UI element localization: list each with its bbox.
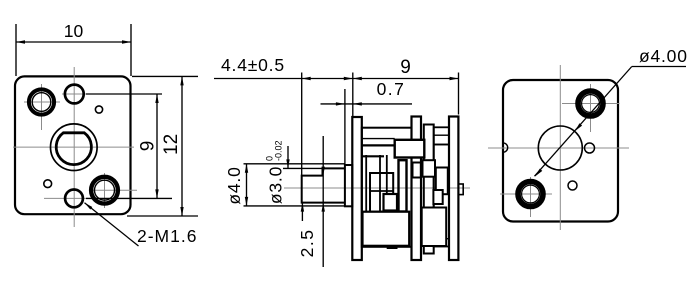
gear internals [362, 138, 395, 140]
small hole bottom [568, 181, 577, 190]
dimension 4.4±0.5 [214, 73, 353, 176]
leader ø4.00 [535, 67, 687, 177]
front plate side [352, 117, 362, 260]
dimension 9 (middle view) [353, 73, 459, 115]
leader 2-M1.6 [85, 203, 139, 246]
svg-text:9: 9 [137, 141, 158, 152]
svg-text:4.4±0.5: 4.4±0.5 [221, 55, 285, 75]
svg-text:ø4.00: ø4.00 [639, 46, 688, 66]
dimension ø3.0 with tolerance [283, 146, 323, 221]
centerlines [488, 65, 629, 230]
middle plate [412, 117, 422, 261]
hole TR ring [578, 91, 603, 116]
gearbox body [362, 128, 412, 247]
svg-text:-0.02: -0.02 [274, 140, 284, 161]
centerline horizontal main [13, 146, 134, 148]
motor body [434, 127, 449, 246]
gear hub on middle plate [413, 163, 421, 178]
svg-text:ø3.0: ø3.0 [266, 166, 286, 204]
plate back outline [503, 80, 618, 222]
svg-text:ø4.0: ø4.0 [224, 166, 244, 204]
small gear below centerline right [433, 190, 442, 204]
svg-text:12: 12 [161, 134, 182, 155]
small dot hole left [44, 180, 52, 188]
centerline BC hole horizontal (left part) [44, 197, 88, 199]
band plate [424, 125, 434, 254]
collar (0.7 boss) [345, 165, 352, 206]
dimension 0.7 [321, 89, 413, 166]
hole BR ring [91, 177, 118, 204]
hole TC (M1.6) [65, 85, 84, 104]
dimension 2.5 [322, 136, 324, 267]
centerline TC hole horizontal (left part) [62, 93, 88, 95]
center D-shaft hole with flat [56, 133, 91, 165]
centerline TL hole horizontal [24, 101, 60, 103]
svg-text:9: 9 [400, 57, 411, 78]
svg-text:2.5: 2.5 [297, 229, 317, 258]
boss circle ø4.00 [538, 126, 582, 170]
centerline vertical main [13, 67, 137, 227]
centerline [284, 187, 470, 189]
svg-text:0.7: 0.7 [377, 79, 406, 99]
centerline TL hole vertical [41, 84, 43, 130]
dimension 10 [16, 24, 131, 76]
bottom gear cluster left [363, 212, 410, 246]
small dot hole top-right [95, 106, 102, 113]
dimension ø4.0 [244, 164, 345, 206]
small hole right [585, 143, 595, 153]
plate front outline [15, 76, 131, 214]
terminal tab [387, 246, 398, 249]
end plate [449, 117, 458, 261]
hole BC (M1.6) [65, 190, 83, 208]
centerline BR hole vertical [104, 173, 106, 208]
gear above centerline right [423, 160, 436, 177]
centerline BR hole horizontal [89, 189, 137, 191]
dimension 9 (left view) [86, 94, 172, 198]
center boss circle [51, 124, 98, 171]
hole BL ring [518, 182, 543, 207]
rear shaft stub [458, 184, 463, 195]
svg-text:10: 10 [64, 21, 84, 41]
pinion box right crossing centerline [436, 168, 448, 195]
hole TL ring [29, 89, 54, 114]
svg-text:2-M1.6: 2-M1.6 [137, 226, 197, 246]
notch left edge [503, 143, 508, 152]
bottom gear cluster right [422, 208, 447, 247]
dimension 12 (left view) [127, 76, 198, 216]
shaft outline with flat [302, 168, 345, 202]
